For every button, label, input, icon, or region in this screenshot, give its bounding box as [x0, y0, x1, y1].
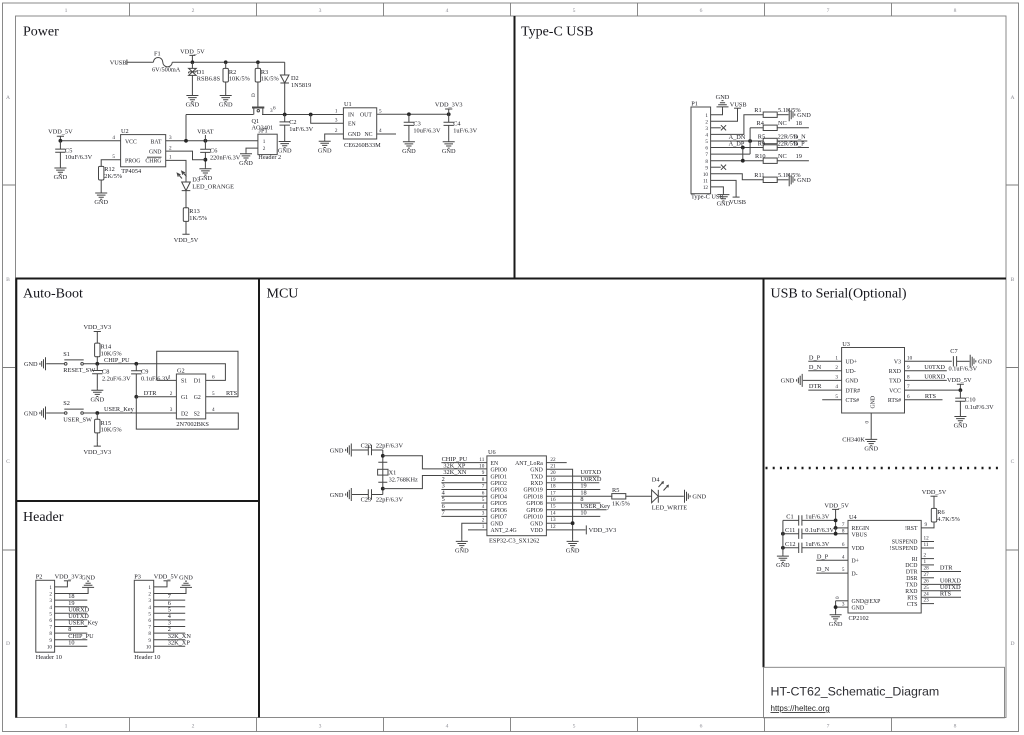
wire GPIO5: [441, 502, 487, 504]
svg-text:6: 6: [700, 724, 703, 730]
ground R1: [789, 108, 811, 121]
svg-text:4: 4: [842, 554, 845, 560]
svg-text:!RST: !RST: [905, 526, 918, 532]
wire VUSB to fuse F1: [127, 61, 153, 63]
wire P2 pin7: [55, 626, 88, 628]
wire pin1 to GND: [711, 108, 723, 114]
svg-text:BAT: BAT: [151, 139, 162, 145]
wire !RST pin9 to R6: [921, 522, 934, 528]
node junction VCC/C10: [959, 388, 963, 392]
ground C2: [278, 140, 292, 155]
svg-text:9: 9: [925, 522, 928, 528]
wire GND pin13: [546, 522, 572, 524]
divider Auto-Boot / Header: [16, 500, 260, 502]
svg-text:10: 10: [703, 172, 709, 178]
header JP1: [258, 134, 277, 154]
svg-text:2: 2: [192, 8, 195, 14]
svg-text:7: 7: [442, 510, 445, 517]
svg-text:24: 24: [924, 591, 930, 597]
svg-text:2: 2: [335, 128, 338, 134]
svg-text:7: 7: [482, 484, 485, 490]
ground C4: [442, 140, 456, 155]
svg-text:GND@EXP: GND@EXP: [852, 599, 881, 605]
svg-text:DTR: DTR: [940, 565, 953, 572]
capacitor C3 10uF/6.3V: [408, 114, 410, 140]
resistor R6 4.7K/5%: [931, 508, 936, 522]
node junction VBAT: [204, 139, 208, 143]
svg-text:USER_Key: USER_Key: [104, 406, 135, 413]
svg-text:D+: D+: [852, 558, 859, 564]
svg-text:VDD: VDD: [852, 546, 865, 552]
node junction VBUS: [834, 532, 838, 536]
wire pin6 A_DP to R9: [711, 147, 764, 149]
svg-text:Power: Power: [23, 25, 59, 40]
diode D1 TVS RSB6.8S: [189, 62, 197, 94]
wire gnd to S1: [46, 363, 64, 365]
capacitor C10 0.1uF/6.3V: [959, 390, 961, 415]
power symbol VDD_3V3 bar: [585, 525, 587, 534]
svg-text:2: 2: [835, 365, 838, 371]
svg-text:3: 3: [705, 126, 708, 132]
wire pin9 no connect: [711, 166, 721, 168]
wire GND pin3 U4: [836, 601, 848, 613]
svg-text:1: 1: [148, 585, 151, 591]
svg-text:5: 5: [482, 497, 485, 503]
svg-text:9: 9: [49, 638, 52, 644]
svg-text:5: 5: [148, 611, 151, 617]
svg-text:0: 0: [865, 421, 871, 424]
svg-text:OUT: OUT: [360, 113, 372, 119]
wire P3 pin3: [154, 599, 186, 601]
svg-text:Auto-Boot: Auto-Boot: [23, 287, 83, 302]
ground U1: [318, 140, 332, 155]
wire vertical BAT riser: [185, 115, 187, 141]
svg-text:U0TXD: U0TXD: [924, 364, 945, 371]
svg-text:C1: C1: [786, 514, 793, 521]
svg-text:DTR: DTR: [144, 390, 157, 397]
svg-text:S2: S2: [63, 400, 70, 407]
wire pin7: [711, 153, 751, 155]
ground port S1: [24, 357, 46, 370]
wire RTS pin24: [921, 596, 961, 598]
resistor R5 1K/5%: [612, 494, 626, 499]
svg-text:C23: C23: [361, 496, 372, 503]
svg-text:RSB6.8S: RSB6.8S: [197, 76, 221, 83]
wire gnd to S2: [46, 412, 64, 414]
svg-text:R5: R5: [758, 133, 765, 140]
wire P2 pin4: [55, 606, 88, 608]
svg-text:JP1: JP1: [259, 128, 268, 135]
svg-text:9: 9: [148, 638, 151, 644]
wire P3 pin6: [154, 619, 186, 621]
wire U2 GND pin2: [166, 151, 206, 160]
svg-text:GND: GND: [846, 379, 859, 385]
wire P3 pin2 to GND: [154, 589, 186, 594]
svg-text:1uF/6.3V: 1uF/6.3V: [805, 514, 829, 521]
power symbol VDD_5V P3: [164, 580, 171, 582]
svg-text:2: 2: [192, 724, 195, 730]
svg-text:5: 5: [112, 154, 115, 160]
svg-text:VUSB: VUSB: [729, 199, 746, 206]
divider top row / bottom row: [16, 278, 1007, 280]
wire CTS pin5: [822, 399, 841, 401]
svg-text:10uF/6.3V: 10uF/6.3V: [413, 128, 441, 135]
svg-text:C12: C12: [785, 541, 796, 548]
svg-text:GPIO9: GPIO9: [526, 508, 543, 514]
svg-text:6: 6: [212, 375, 215, 381]
LED D3 LED_ORANGE: [182, 182, 191, 208]
regulator U1 CE6260B33M: [343, 108, 376, 139]
svg-text:0.1uF/6.3V: 0.1uF/6.3V: [141, 375, 170, 382]
svg-text:10: 10: [146, 644, 152, 650]
LED D4 LED_WRITE: [652, 490, 684, 503]
svg-text:UD-: UD-: [846, 369, 856, 375]
svg-text:CTS: CTS: [907, 602, 918, 608]
svg-text:2: 2: [169, 145, 172, 151]
wire P2 pin2 to GND: [55, 589, 89, 594]
svg-text:CHRG: CHRG: [145, 159, 161, 165]
capacitor C1 1uF/6.3V: [783, 519, 836, 521]
svg-text:3: 3: [169, 135, 172, 141]
svg-text:GND: GND: [348, 132, 361, 138]
svg-text:2.2uF/6.3V: 2.2uF/6.3V: [102, 375, 131, 382]
connector P3 Header 10: [134, 580, 153, 652]
svg-text:8: 8: [482, 477, 485, 483]
svg-text:3: 3: [319, 724, 322, 730]
svg-text:VDD_5V: VDD_5V: [180, 49, 205, 56]
net label VBAT: [204, 135, 206, 141]
svg-text:22pF/6.3V: 22pF/6.3V: [376, 443, 404, 450]
ground R2: [219, 94, 233, 109]
svg-text:C: C: [1011, 459, 1015, 465]
svg-text:R9: R9: [758, 141, 765, 148]
node junction C12 left: [781, 546, 785, 550]
svg-text:10: 10: [479, 463, 485, 469]
svg-text:D: D: [1010, 641, 1014, 647]
svg-text:USER_SW: USER_SW: [63, 416, 92, 423]
node junction DTR: [134, 395, 138, 399]
svg-text:ANT_2.4G: ANT_2.4G: [491, 528, 517, 534]
wire JP1 pin2 to ground: [246, 148, 258, 152]
wire DTR pin28: [921, 571, 961, 573]
svg-text:LED_ORANGE: LED_ORANGE: [192, 183, 234, 190]
wire GPIO10 pin14: [546, 515, 600, 517]
wire TXD pin8: [905, 379, 947, 381]
ground port C7: [970, 355, 992, 368]
node junction A_DP pin6: [741, 146, 745, 150]
svg-text:GPIO8: GPIO8: [526, 501, 543, 507]
wire P3 pin1 to VDD_5V: [154, 581, 167, 587]
chip U6 ESP32-C3 SX1262: [487, 456, 547, 536]
resistor R1 5.1K/5%: [763, 112, 777, 117]
svg-text:26: 26: [924, 579, 930, 585]
wire BAT rail: [166, 140, 258, 142]
svg-text:0: 0: [835, 596, 841, 599]
ground port C23: [330, 488, 352, 501]
svg-text:2: 2: [170, 391, 173, 397]
resistor R9 22R/5%: [763, 145, 777, 150]
resistor R15 10K/5%: [96, 413, 98, 442]
wire CTS pin23: [921, 603, 934, 605]
svg-text:8: 8: [49, 631, 52, 637]
svg-text:3: 3: [482, 511, 485, 517]
wire pin10 to R11: [711, 174, 764, 180]
svg-text:F1: F1: [154, 50, 161, 57]
capacitor C7 0.1uF/6.3V: [953, 356, 956, 366]
svg-text:5: 5: [842, 567, 845, 573]
svg-text:5: 5: [573, 724, 576, 730]
capacitor C11 0.1uF/6.3V: [799, 529, 802, 539]
wire RXD pin9: [905, 370, 947, 372]
svg-text:VDD_3V3: VDD_3V3: [435, 101, 463, 108]
svg-text:VDD_5V: VDD_5V: [174, 237, 199, 244]
wire DSR pin27: [921, 577, 934, 579]
svg-text:6: 6: [842, 542, 845, 548]
svg-text:1: 1: [169, 155, 172, 161]
svg-text:22: 22: [550, 457, 556, 463]
svg-text:D3: D3: [192, 176, 200, 183]
wire R4 row: [750, 127, 763, 129]
svg-text:MCU: MCU: [267, 287, 299, 302]
svg-text:4: 4: [379, 128, 382, 134]
capacitor C9 0.1uF/6.3V: [135, 364, 137, 397]
svg-text:1: 1: [263, 139, 266, 145]
ground R12: [94, 192, 108, 207]
svg-text:V3: V3: [894, 360, 901, 366]
svg-text:9: 9: [705, 165, 708, 171]
svg-text:2: 2: [49, 592, 52, 598]
svg-text:VUSB: VUSB: [110, 59, 127, 66]
ground D1: [186, 94, 200, 109]
ground C5: [54, 167, 68, 182]
wire pin2 to VUSB: [711, 108, 738, 121]
svg-text:DCD: DCD: [905, 563, 917, 569]
connector P2 Header 10: [36, 580, 55, 652]
wire RI pin2: [921, 558, 934, 560]
svg-text:GPIO5: GPIO5: [491, 501, 508, 507]
ground P2: [81, 574, 95, 589]
svg-text:27: 27: [924, 572, 930, 578]
svg-text:12: 12: [703, 185, 709, 191]
power symbol VDD_5V R6: [931, 495, 938, 497]
svg-text:R5: R5: [612, 487, 619, 494]
svg-text:C7: C7: [950, 348, 957, 355]
svg-text:VDD_3V3: VDD_3V3: [83, 449, 111, 456]
svg-text:22pF/6.3V: 22pF/6.3V: [376, 496, 404, 503]
power symbol VDD_5V U3: [957, 384, 964, 390]
svg-text:NC: NC: [365, 132, 373, 138]
svg-text:D_N: D_N: [809, 364, 822, 371]
wire SUSPEND pin12: [921, 541, 934, 543]
svg-text:6: 6: [705, 146, 708, 152]
svg-text:B: B: [1011, 277, 1015, 283]
svg-text:DTR: DTR: [809, 383, 822, 390]
svg-text:S1: S1: [181, 379, 187, 385]
svg-text:VDD_3V3: VDD_3V3: [55, 573, 83, 580]
svg-text:8: 8: [954, 8, 957, 14]
resistor R13 1K/5%: [183, 208, 188, 222]
svg-text:D1: D1: [194, 379, 201, 385]
ground port U3 pin3: [781, 374, 803, 387]
svg-text:S2: S2: [194, 412, 200, 418]
wire S1 pin1: [157, 379, 177, 381]
svg-text:USB to Serial(Optional): USB to Serial(Optional): [771, 287, 907, 302]
svg-text:C: C: [6, 459, 10, 465]
svg-text:G2: G2: [194, 395, 201, 401]
node junction GND U4: [834, 605, 838, 609]
node junction C6/GND: [204, 158, 208, 162]
svg-text:RXD: RXD: [905, 589, 917, 595]
svg-text:12: 12: [550, 524, 556, 530]
svg-text:1K/5%: 1K/5%: [261, 76, 280, 83]
wire P2 pin8: [55, 632, 88, 634]
wire D+ pin4: [816, 559, 848, 561]
svg-text:0.1uF/6.3V: 0.1uF/6.3V: [965, 404, 994, 411]
svg-text:10K/5%: 10K/5%: [101, 427, 123, 434]
node junction REGIN: [834, 526, 838, 530]
svg-text:3: 3: [148, 598, 151, 604]
svg-text:GPIO3: GPIO3: [491, 488, 508, 494]
svg-text:U0RXD: U0RXD: [924, 374, 945, 381]
svg-text:SUSPEND: SUSPEND: [892, 540, 918, 546]
wire CHRG pin1 to LED: [166, 160, 186, 182]
wire A_DP vertical pins 6-8: [742, 148, 744, 161]
svg-text:1: 1: [335, 109, 338, 115]
wire TXD pin26: [921, 583, 961, 585]
transistor Q1 AO3401: [252, 107, 264, 109]
svg-text:4: 4: [112, 135, 115, 141]
svg-text:6: 6: [700, 8, 703, 14]
svg-text:2: 2: [482, 517, 485, 523]
power symbol VDD_3V3 bottom: [94, 442, 101, 447]
svg-text:RTS: RTS: [226, 390, 238, 397]
switch S2 USER_SW: [64, 412, 67, 415]
svg-text:5: 5: [835, 394, 838, 400]
svg-text:0.1uF/6.3V: 0.1uF/6.3V: [949, 366, 978, 373]
svg-text:2: 2: [924, 553, 927, 559]
svg-text:3: 3: [842, 601, 845, 607]
node junction GND pin13: [571, 521, 575, 525]
wire GPIO18 pin17 to R5: [546, 495, 612, 497]
svg-text:R4: R4: [757, 120, 765, 127]
node junction A_DP pin8: [741, 159, 745, 163]
svg-text:20: 20: [550, 470, 556, 476]
svg-text:RTS#: RTS#: [888, 398, 901, 404]
node junction A_DN: [748, 139, 752, 143]
svg-text:S1: S1: [63, 351, 70, 358]
svg-text:CE6260B33M: CE6260B33M: [344, 142, 381, 149]
ground JP1: [239, 152, 253, 167]
wire GPIO19 pin18: [546, 489, 600, 491]
wire RXD pin25: [921, 590, 961, 592]
svg-text:5: 5: [49, 611, 52, 617]
svg-text:TXD: TXD: [889, 379, 901, 385]
node junction EN: [309, 113, 313, 117]
svg-text:5: 5: [705, 139, 708, 145]
node junction R2: [224, 60, 228, 64]
wire V3 pin10 to C7: [905, 360, 952, 362]
svg-text:GPIO1: GPIO1: [491, 474, 508, 480]
svg-text:VCC: VCC: [889, 388, 901, 394]
svg-text:VDD_3V3: VDD_3V3: [83, 324, 111, 331]
svg-text:9: 9: [907, 365, 910, 371]
svg-text:U3: U3: [842, 341, 850, 348]
dotted separator inside USB to Serial: [766, 467, 1004, 469]
wire P3 pin7: [154, 626, 186, 628]
svg-text:10uF/6.3V: 10uF/6.3V: [65, 154, 93, 161]
wire GPIO3: [441, 489, 487, 491]
svg-text:CTS#: CTS#: [846, 398, 860, 404]
svg-text:EN: EN: [348, 122, 357, 128]
ground C3: [402, 140, 416, 155]
capacitor C12 1uF/6.3V: [799, 543, 802, 553]
wire P2 pin3: [55, 599, 88, 601]
svg-text:D: D: [251, 93, 257, 97]
ground U4: [829, 613, 843, 628]
svg-text:8: 8: [148, 631, 151, 637]
svg-text:U4: U4: [849, 514, 858, 521]
svg-text:18: 18: [796, 120, 802, 127]
svg-text:1uF/6.3V: 1uF/6.3V: [289, 126, 313, 133]
node junction C1/VDD riser: [834, 519, 838, 523]
svg-text:C11: C11: [785, 527, 795, 534]
wire GPIO9 pin15: [546, 509, 606, 511]
svg-text:X1: X1: [389, 470, 397, 477]
ground port S2: [24, 407, 46, 420]
svg-text:TXD: TXD: [531, 474, 543, 480]
diode D2 1N5819: [280, 62, 289, 114]
svg-text:C9: C9: [141, 368, 148, 375]
wire DTR row: [136, 396, 176, 398]
wire TXD pin20: [546, 475, 599, 477]
svg-text:GND: GND: [491, 521, 504, 527]
wire GPIO6: [441, 509, 487, 511]
capacitor C5 10uF/6.3V: [59, 141, 61, 167]
svg-text:PROG: PROG: [125, 159, 140, 165]
power symbol VUSB bottom: [733, 196, 740, 198]
svg-text:TP4054: TP4054: [121, 168, 142, 175]
ground port C22: [330, 444, 352, 457]
svg-text:D_N: D_N: [793, 133, 806, 140]
svg-text:U2: U2: [121, 128, 129, 135]
wire P2 pin10: [55, 645, 88, 647]
svg-text:3: 3: [319, 8, 322, 14]
svg-text:2: 2: [148, 592, 151, 598]
wire P2 pin5: [55, 612, 88, 614]
svg-text:D: D: [6, 641, 10, 647]
wire RTS pin6: [905, 399, 943, 401]
wire 32K_XP branch: [383, 456, 487, 469]
svg-text:RXD: RXD: [531, 481, 543, 487]
svg-text:HT-CT62_Schematic_Diagram: HT-CT62_Schematic_Diagram: [771, 685, 940, 699]
chip U3 CH340K: [842, 348, 905, 414]
node junction C11 left: [781, 532, 785, 536]
svg-text:R10: R10: [755, 153, 766, 160]
svg-text:3: 3: [49, 598, 52, 604]
svg-text:1K/5%: 1K/5%: [612, 500, 631, 507]
wire GND pin21 riser: [546, 469, 572, 540]
switch S1 RESET_SW: [64, 363, 67, 366]
wire !SUSPEND pin11: [921, 547, 934, 549]
svg-text:32K_XP: 32K_XP: [168, 639, 191, 646]
wire OUT rail: [377, 113, 449, 115]
svg-text:ANT_LoRa: ANT_LoRa: [515, 461, 543, 467]
wire A_DN vertical pins 5-7 and R4: [749, 128, 751, 154]
svg-text:A: A: [1010, 95, 1014, 101]
wire GND@EXP pin0: [836, 600, 848, 602]
svg-text:VDD_5V: VDD_5V: [154, 573, 179, 580]
svg-text:4: 4: [446, 724, 449, 730]
